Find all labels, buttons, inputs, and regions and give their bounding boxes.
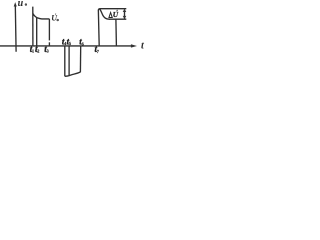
svg-text:2: 2	[37, 49, 39, 54]
callout right leader	[115, 19, 118, 46]
pulse1 reference line t2	[36, 18, 38, 46]
pulse1 right edge upper	[48, 19, 50, 41]
callout top line	[98, 9, 126, 11]
pulse1 decay curve	[33, 13, 50, 19]
horizontal axis (t)	[0, 45, 132, 47]
svg-text:7: 7	[97, 49, 99, 54]
label delta U' (ripple)	[109, 13, 112, 18]
negative pulse recovery curve along bottom	[65, 72, 81, 76]
svg-text:′: ′	[116, 9, 118, 16]
u axis arrowhead	[14, 2, 17, 6]
svg-text:u: u	[18, 0, 24, 9]
svg-text:6: 6	[82, 41, 84, 46]
background	[0, 0, 145, 85]
callout left leader	[97, 10, 100, 46]
dimension arrow shaft	[124, 10, 126, 19]
svg-text:1: 1	[32, 49, 34, 54]
pulse1 right edge lower	[48, 42, 50, 46]
pulse1 spike edge	[32, 7, 34, 46]
callout ripple curve	[100, 9, 110, 19]
negative pulse spike edge	[64, 46, 66, 76]
negative pulse right edge	[79, 46, 81, 72]
dimension arrow head up	[123, 9, 127, 12]
t axis arrowhead	[131, 44, 137, 47]
svg-text:3: 3	[47, 49, 49, 54]
dimension arrow head down	[123, 16, 127, 19]
callout bottom line	[109, 18, 126, 20]
negative pulse reference line t5	[68, 46, 70, 76]
svg-text:5: 5	[69, 41, 71, 46]
vertical axis (u)	[14, 5, 17, 52]
